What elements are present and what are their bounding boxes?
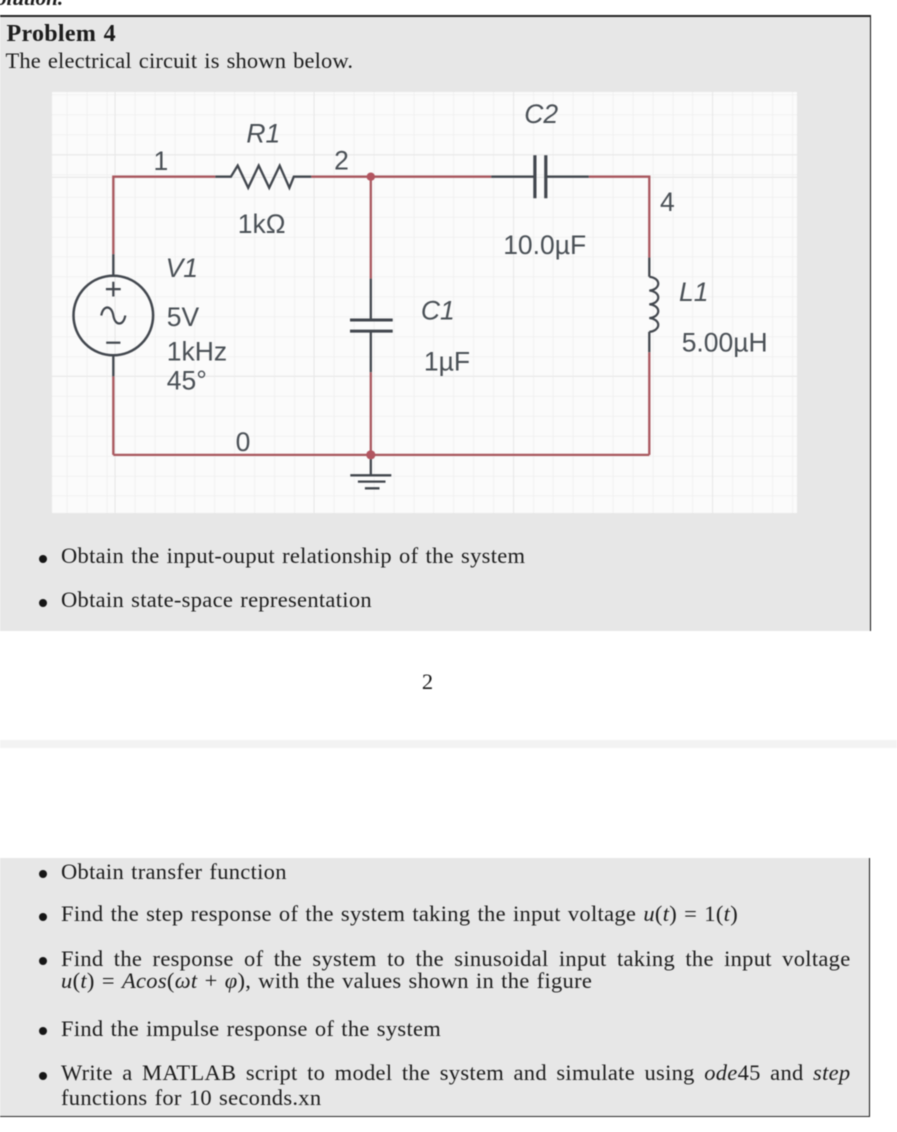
svg-text:45°: 45° <box>166 365 206 395</box>
capacitor C1 top lead <box>369 278 371 319</box>
svg-text:5V: 5V <box>166 302 199 332</box>
svg-text:0: 0 <box>235 427 250 457</box>
circuit canvas <box>52 92 798 513</box>
voltage source V1 bottom lead <box>112 355 114 376</box>
svg-text:C2: C2 <box>524 99 558 129</box>
capacitor C1 plates <box>350 320 393 331</box>
svg-text:V1: V1 <box>165 253 197 283</box>
voltage source V1 circle <box>73 275 153 355</box>
svg-text:1: 1 <box>153 146 168 176</box>
svg-text:4: 4 <box>660 187 675 217</box>
capacitor C1 bottom lead <box>369 331 371 372</box>
box2 bullet 1 <box>39 870 47 878</box>
V1 plus sign <box>106 281 121 296</box>
capacitor C2 plates <box>535 155 546 198</box>
wire node2 down to C1 <box>369 176 371 278</box>
box2 bullet 2 <box>39 913 47 921</box>
svg-text:10.0µF: 10.0µF <box>503 230 586 260</box>
box1 bullet 2 <box>39 599 47 607</box>
ground symbol <box>350 459 391 488</box>
top cropped italic word "olution." <box>0 0 63 11</box>
wire top-left corner node1 <box>113 176 215 253</box>
wire L1 bottom to rail <box>648 352 650 455</box>
wire C1 bottom to ground node <box>369 372 371 455</box>
inductor L1 top lead <box>648 257 650 276</box>
V1 sine symbol <box>101 307 125 323</box>
svg-text:5.00µH: 5.00µH <box>681 327 767 357</box>
box2 bullet 4 <box>39 1027 47 1035</box>
inter-page strip <box>0 740 897 748</box>
wire bottom rail <box>113 453 649 455</box>
capacitor C2 left lead <box>491 175 535 177</box>
box2 bullet 3 line 2 <box>61 969 592 993</box>
svg-text:1µF: 1µF <box>424 346 470 376</box>
node 2 junction dot <box>366 172 374 180</box>
svg-text:2: 2 <box>334 145 349 175</box>
wire R1 right to node2 <box>311 175 370 177</box>
wire node2 to C2 <box>370 175 490 177</box>
svg-text:1kHz: 1kHz <box>166 336 226 366</box>
page number 2 <box>0 670 855 694</box>
svg-text:C1: C1 <box>421 295 455 325</box>
wire C2 to corner node4 down <box>588 176 648 257</box>
inductor L1 bottom lead <box>648 331 650 351</box>
capacitor C2 right lead <box>545 175 588 177</box>
svg-text:R1: R1 <box>246 118 280 148</box>
V1 minus sign <box>106 341 120 343</box>
svg-text:1kΩ: 1kΩ <box>237 209 285 239</box>
ground junction dot <box>366 450 375 459</box>
voltage source V1 top lead <box>112 254 114 276</box>
box2 bullet 5 line 2 <box>61 1086 321 1110</box>
box2 bullet 3 line 1 <box>39 957 47 965</box>
box2 bullet 5 line 1 <box>39 1072 47 1080</box>
resistor R1 <box>215 165 311 187</box>
box1 bullet 1 <box>39 555 47 563</box>
wire V1 bottom to rail <box>112 376 114 455</box>
svg-text:L1: L1 <box>679 277 708 307</box>
inductor L1 coil <box>649 276 658 331</box>
